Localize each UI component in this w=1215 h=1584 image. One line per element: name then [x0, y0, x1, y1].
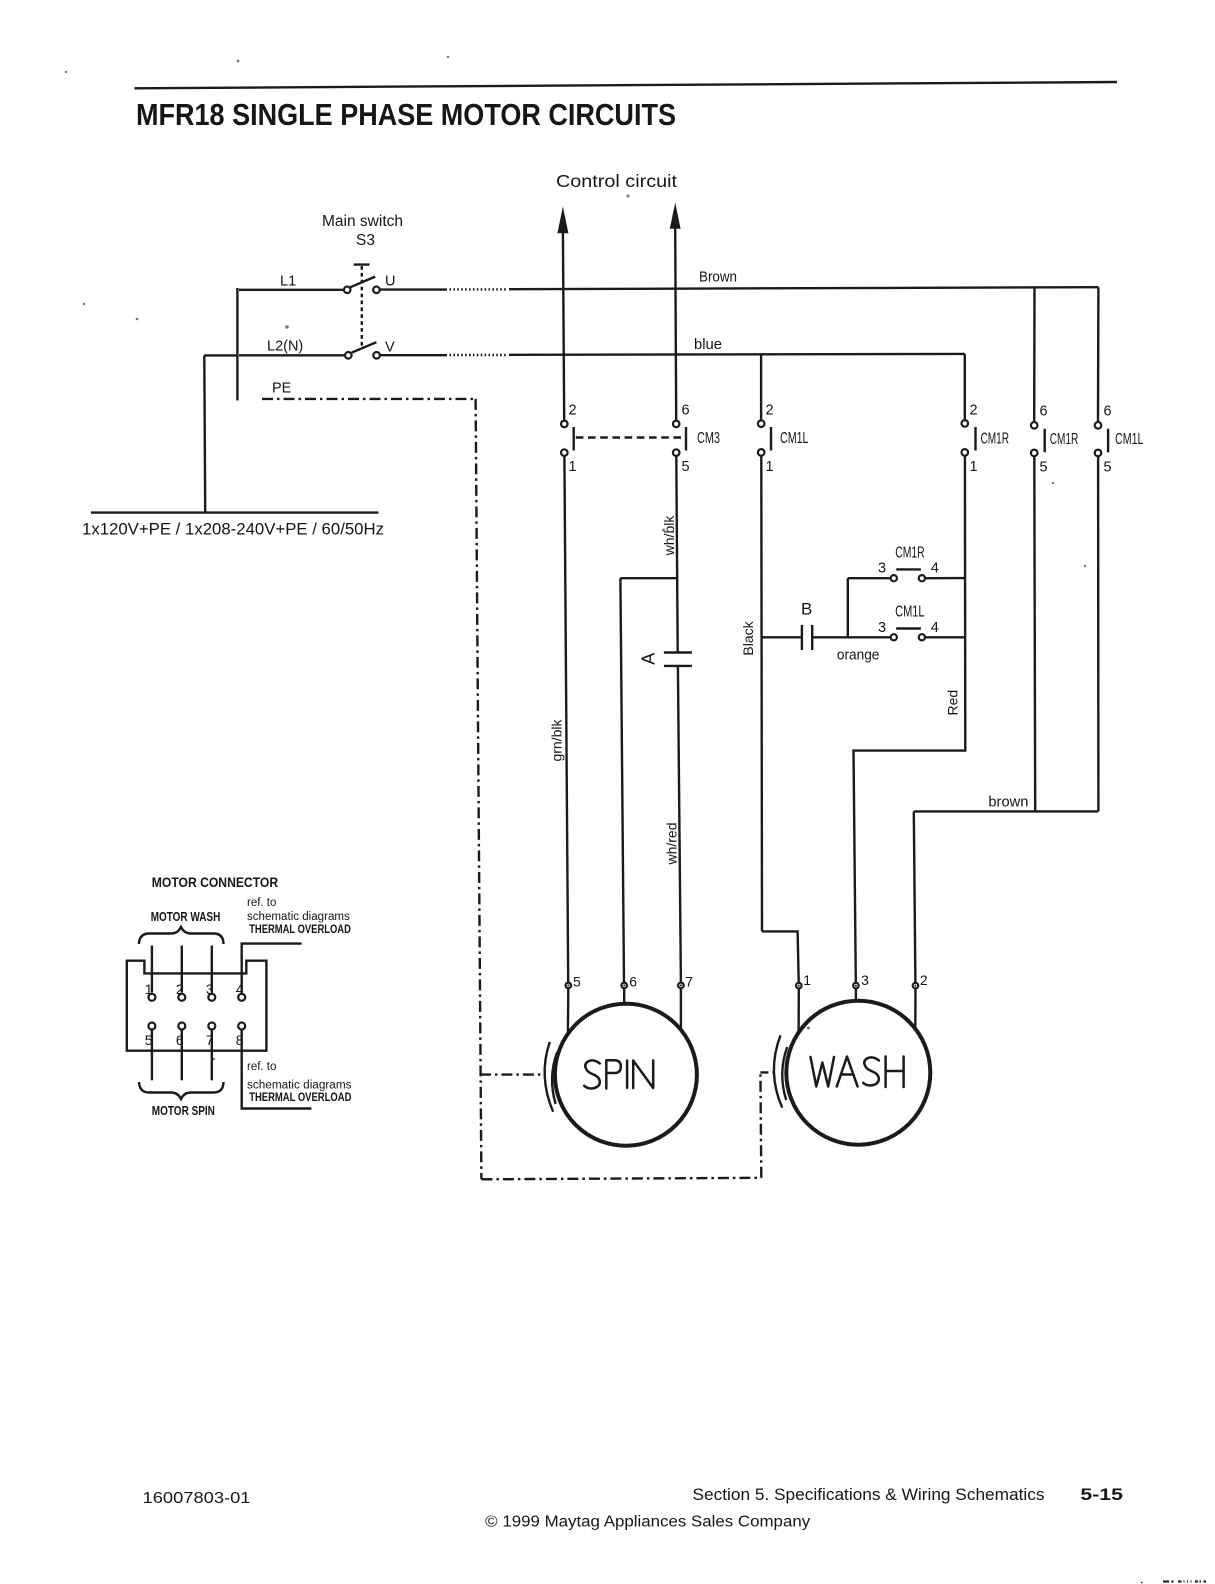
switch S3 pole L2 blade — [352, 342, 377, 352]
contact CM1R pin 6 — [1031, 422, 1038, 429]
contact CM1R pin 2 — [962, 420, 969, 427]
motor WASH frame arc inner — [782, 1047, 787, 1100]
wire blue drop to CM1R 2 — [964, 354, 966, 421]
svg-text:CM1L: CM1L — [1115, 431, 1144, 448]
connector pin 6 — [178, 1023, 185, 1030]
svg-text:5: 5 — [573, 973, 581, 989]
connector pin 4 — [238, 994, 245, 1001]
capacitor B plate 2 — [811, 625, 813, 650]
svg-text:2: 2 — [920, 972, 928, 988]
motor SPIN frame arc outer — [545, 1042, 553, 1112]
motor WASH body — [786, 1001, 930, 1145]
wire to CM1R aux — [848, 577, 891, 579]
svg-text:1: 1 — [970, 459, 978, 475]
svg-text:schematic diagrams: schematic diagrams — [247, 911, 350, 923]
svg-text:3: 3 — [861, 972, 869, 988]
svg-text:3: 3 — [878, 620, 886, 636]
svg-text:5: 5 — [1040, 460, 1048, 476]
svg-text:5: 5 — [682, 459, 690, 475]
svg-text:4: 4 — [236, 981, 244, 997]
wire CM1R 5 down — [1033, 457, 1036, 812]
capacitor A top plate — [664, 651, 692, 653]
svg-text:Red: Red — [945, 690, 961, 716]
motor WASH pin 1 — [796, 983, 802, 989]
connector pin 7 — [208, 1023, 215, 1030]
motor SPIN pin 7 — [678, 983, 684, 989]
wire brown drop to CM1R 6 — [1033, 288, 1036, 423]
contactor CM3 pole B bar — [685, 427, 687, 451]
svg-text:CM1R: CM1R — [981, 431, 1010, 448]
svg-text:CM1R: CM1R — [895, 545, 925, 562]
svg-text:4: 4 — [931, 561, 939, 577]
svg-text:6: 6 — [682, 403, 690, 419]
wire junction riser — [847, 578, 849, 637]
wire PE dash-dot riser to WASH frame — [759, 1072, 762, 1177]
motor SPIN frame arc inner — [552, 1052, 557, 1104]
svg-text:A: A — [639, 653, 659, 665]
svg-text:schematic diagrams: schematic diagrams — [247, 1080, 352, 1092]
capacitor A bottom plate — [664, 665, 692, 667]
switch CM1L aux pin 4 — [919, 634, 925, 640]
wire blue drop to CM1L 2 — [760, 354, 762, 420]
supply ground bar — [91, 511, 379, 513]
contact CM1R pin 5 — [1031, 450, 1038, 457]
wire black branch — [762, 636, 802, 638]
wire jog to WASH 1 — [762, 931, 799, 982]
connector pin 2 — [178, 994, 185, 1001]
switch S3 pole L1 blade — [350, 277, 375, 288]
svg-text:CM1L: CM1L — [895, 604, 925, 621]
contact CM1L pin 5 — [1095, 450, 1102, 457]
contact CM1R bar — [974, 427, 976, 451]
scan noise marks bottom right — [1141, 1582, 1206, 1583]
switch S3 pole L2 contact b — [373, 352, 380, 359]
contactor CM3 pole B pin 6 — [673, 421, 680, 428]
svg-text:2: 2 — [766, 403, 774, 419]
brace motor spin — [139, 1082, 224, 1099]
wire PE dash-dot stub to WASH frame — [760, 1071, 773, 1073]
svg-text:V: V — [385, 340, 395, 356]
wire connector pin2 top — [181, 946, 183, 993]
wire wh/red — [678, 666, 681, 983]
svg-text:wh/red: wh/red — [664, 822, 680, 865]
svg-text:MOTOR WASH: MOTOR WASH — [151, 910, 221, 924]
wire WASH lead 1 — [797, 988, 800, 1034]
wire CM1L 5 down — [1097, 457, 1100, 812]
wire CM1R aux output — [925, 577, 965, 580]
wire supply neutral link — [204, 354, 237, 356]
wire brown dotted segment — [450, 288, 508, 290]
pointer line thermal overload top — [242, 944, 302, 993]
wire PE dash-dot horizontal — [262, 398, 476, 400]
svg-text:MOTOR CONNECTOR: MOTOR CONNECTOR — [152, 874, 278, 890]
svg-text:1x120V+PE / 1x208-240V+PE / 60: 1x120V+PE / 1x208-240V+PE / 60/50Hz — [82, 521, 384, 539]
wire grn/blk — [564, 456, 568, 983]
connector pin 3 — [208, 994, 215, 1001]
label SPIN — [584, 1060, 653, 1088]
svg-text:5-15: 5-15 — [1080, 1485, 1123, 1504]
svg-text:6: 6 — [629, 973, 637, 989]
pointer line thermal overload bottom — [242, 1030, 312, 1108]
connector pin 5 — [148, 1023, 155, 1030]
brace motor wash — [139, 927, 224, 944]
wire SPIN lead 6 — [623, 988, 625, 1004]
wire PE dash-dot bottom horizontal — [481, 1178, 761, 1180]
contactor CM3 pole A bar — [573, 427, 575, 451]
svg-text:6: 6 — [1040, 404, 1048, 420]
wire supply down lead — [203, 355, 206, 512]
wire brown to WASH 2 — [914, 811, 916, 982]
svg-text:U: U — [385, 274, 395, 290]
wire SPIN lead 5 — [567, 988, 570, 1033]
contact CM1L bar — [770, 427, 772, 451]
svg-text:MOTOR SPIN: MOTOR SPIN — [152, 1104, 215, 1118]
svg-text:PE: PE — [272, 381, 292, 397]
wire blue solid segment 2 — [509, 353, 965, 356]
wire brown solid segment 1 — [380, 288, 447, 290]
contactor CM3 linkage dashes — [576, 436, 685, 438]
wire PE dash-dot stub to SPIN frame — [480, 1073, 542, 1075]
wire Black vertical — [760, 456, 763, 931]
wire brown drop to CM1L 6 — [1097, 287, 1100, 421]
svg-text:6: 6 — [1104, 404, 1112, 420]
wire Red — [854, 456, 966, 982]
svg-text:ref. to: ref. to — [247, 1061, 276, 1073]
svg-text:brown: brown — [988, 795, 1028, 811]
svg-text:wh/blk: wh/blk — [661, 515, 677, 557]
svg-text:1: 1 — [145, 981, 153, 997]
switch S3 pole L2 contact a — [345, 352, 352, 359]
switch S3 pole L1 contact a — [344, 287, 351, 294]
wire capacitor B output — [812, 636, 890, 638]
contact CM1R bar2 — [1043, 429, 1045, 453]
svg-text:grn/blk: grn/blk — [549, 718, 565, 761]
switch CM1R aux pin 3 — [891, 575, 897, 581]
connector pin 1 — [148, 994, 155, 1001]
svg-text:orange: orange — [837, 648, 880, 664]
motor WASH pin 2 — [913, 983, 919, 989]
switch CM1R aux pin 4 — [919, 575, 925, 581]
contact CM1L pin 2 — [758, 420, 765, 427]
control arrow 1 wire — [563, 231, 564, 420]
contactor CM3 pole A pin 2 — [561, 421, 568, 428]
svg-text:THERMAL OVERLOAD: THERMAL OVERLOAD — [249, 924, 351, 936]
svg-text:ref. to: ref. to — [247, 897, 276, 909]
wire brown solid segment 2 — [509, 287, 1098, 289]
motor SPIN pin 6 — [621, 983, 627, 989]
wire blue dotted segment — [450, 354, 508, 356]
main switch S3 linkage dashes — [361, 266, 363, 348]
control arrow 1 head — [557, 207, 568, 234]
svg-text:2: 2 — [970, 403, 978, 419]
svg-text:3: 3 — [878, 561, 886, 577]
svg-text:CM3: CM3 — [697, 430, 720, 447]
wire connector pin5 bottom — [151, 1030, 153, 1080]
control arrow 2 wire — [675, 227, 676, 420]
svg-text:5: 5 — [1104, 460, 1112, 476]
wire PE dash-dot vertical — [476, 399, 482, 1179]
svg-text:3: 3 — [206, 981, 214, 997]
switch CM1L aux pin 3 — [891, 634, 897, 640]
svg-text:THERMAL OVERLOAD: THERMAL OVERLOAD — [249, 1092, 351, 1104]
wire WASH lead 3 — [855, 988, 857, 1001]
svg-text:4: 4 — [931, 620, 939, 636]
contact CM1L pin 1 — [758, 449, 765, 456]
connector pin 8 — [238, 1023, 245, 1030]
scan specks — [65, 56, 1086, 1060]
wire CM1L aux output — [925, 636, 965, 638]
svg-text:MFR18 SINGLE PHASE MOTOR CIRCU: MFR18 SINGLE PHASE MOTOR CIRCUITS — [136, 97, 676, 132]
wire brown bottom horizontal — [914, 810, 1099, 812]
svg-text:L2(N): L2(N) — [267, 339, 303, 355]
wire WASH lead 2 — [914, 988, 917, 1031]
connector body outline — [127, 961, 267, 1051]
svg-text:1: 1 — [569, 459, 577, 475]
motor WASH frame arc outer — [774, 1035, 782, 1107]
svg-text:S3: S3 — [356, 232, 375, 249]
svg-text:7: 7 — [685, 973, 693, 989]
svg-text:1: 1 — [803, 972, 811, 988]
contactor CM3 pole B pin 5 — [673, 449, 680, 456]
switch S3 pole L1 contact b — [373, 287, 380, 294]
wire connector pin1 top — [151, 946, 153, 993]
motor WASH pin 3 — [853, 983, 859, 989]
svg-text:L1: L1 — [280, 274, 296, 290]
wire L1 — [239, 289, 344, 291]
wire connector pin6 bottom — [181, 1030, 183, 1080]
svg-text:Brown: Brown — [699, 270, 737, 286]
contact CM1R pin 1 — [962, 449, 969, 456]
switch CM1L aux blade — [896, 627, 921, 629]
label WASH — [811, 1057, 904, 1088]
contact CM1L bar2 — [1107, 429, 1109, 453]
svg-text:1: 1 — [766, 459, 774, 475]
svg-text:CM1L: CM1L — [780, 430, 809, 447]
capacitor B plate 1 — [801, 625, 803, 650]
contact CM1L pin 6 — [1095, 422, 1102, 429]
motor SPIN body — [555, 1004, 697, 1146]
svg-text:2: 2 — [176, 981, 184, 997]
title rule — [135, 82, 1118, 88]
svg-text:Black: Black — [740, 620, 756, 655]
main switch S3 T-bar — [354, 263, 370, 265]
contactor CM3 pole A pin 1 — [561, 449, 568, 456]
wire SPIN lead 7 — [680, 988, 682, 1030]
svg-text:© 1999 Maytag Appliances Sales: © 1999 Maytag Appliances Sales Company — [485, 1514, 810, 1531]
svg-text:Control circuit: Control circuit — [556, 171, 677, 191]
wire connector pin7 bottom — [211, 1030, 213, 1080]
svg-text:CM1R: CM1R — [1050, 431, 1079, 448]
svg-text:B: B — [801, 600, 812, 619]
wire branch horizontal — [620, 577, 677, 579]
svg-text:blue: blue — [694, 337, 722, 353]
wire wh/blk — [676, 456, 677, 652]
svg-text:2: 2 — [569, 403, 577, 419]
wire connector pin3 top — [211, 946, 213, 993]
motor SPIN pin 5 — [566, 983, 572, 989]
control arrow 2 head — [670, 203, 681, 229]
svg-text:Section 5. Specifications & W: Section 5. Specifications & Wiring Schem… — [693, 1486, 1045, 1504]
svg-text:Main switch: Main switch — [322, 213, 403, 230]
svg-text:16007803-01: 16007803-01 — [143, 1490, 251, 1507]
wire L2 — [239, 354, 345, 356]
switch CM1R aux blade — [896, 568, 921, 570]
wire blue solid segment 1 — [380, 354, 447, 356]
wire branch to SPIN 6 — [620, 578, 624, 982]
supply terminal bar — [236, 288, 238, 401]
